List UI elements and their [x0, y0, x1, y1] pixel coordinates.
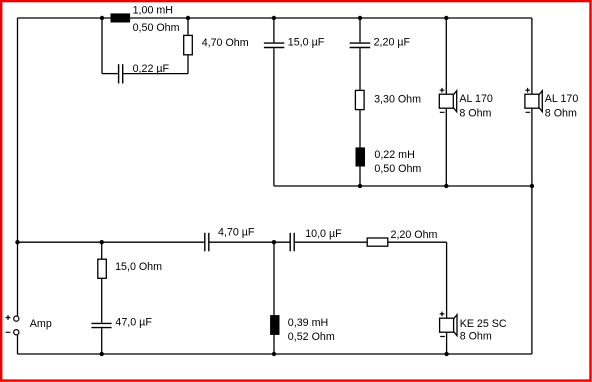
svg-text:0,50 Ohm: 0,50 Ohm	[374, 163, 421, 175]
svg-text:0,52 Ohm: 0,52 Ohm	[288, 331, 335, 343]
inductor L1 1,00 mH	[111, 13, 131, 22]
wire L1 loop bottom left	[102, 73, 118, 75]
wire L1 loop bottom right	[123, 73, 188, 75]
capacitor C1 0,22 uF	[119, 64, 123, 83]
svg-text:0,22 mH: 0,22 mH	[374, 149, 414, 161]
svg-text:2,20 µF: 2,20 µF	[374, 37, 411, 49]
wire C6 bottom lead	[101, 328, 103, 354]
wire top rail	[18, 17, 532, 19]
svg-text:1,00 mH: 1,00 mH	[133, 4, 173, 16]
wire SP3 drop	[446, 242, 448, 318]
node C	[272, 16, 276, 20]
wire lower rail seg3	[295, 241, 367, 243]
inductor L3 0,39 mH	[270, 315, 279, 335]
wire right vertical lower	[531, 108, 533, 354]
svg-text:8 Ohm: 8 Ohm	[460, 331, 492, 343]
wire R2-L2 link	[359, 110, 361, 148]
wire mid bus	[274, 185, 532, 187]
wire L3 column top	[273, 242, 275, 315]
svg-text:0,39 mH: 0,39 mH	[288, 317, 328, 329]
wire R4-C6 link	[101, 278, 103, 322]
speaker U3 KE 25 SC	[440, 312, 457, 337]
wire C3-R2 link	[359, 48, 361, 90]
resistor R3 2,20 Ohm	[367, 238, 388, 246]
svg-text:2,20 Ohm: 2,20 Ohm	[391, 229, 438, 241]
svg-text:AL 170: AL 170	[545, 93, 579, 105]
wire L1 loop left	[101, 18, 103, 74]
svg-text:KE 25 SC: KE 25 SC	[460, 318, 507, 330]
wire R1 top lead	[187, 18, 189, 35]
capacitor C2 15,0 uF	[264, 43, 284, 47]
svg-text:10,0 µF: 10,0 µF	[305, 228, 342, 240]
svg-text:3,30 Ohm: 3,30 Ohm	[374, 93, 421, 105]
node E	[444, 16, 448, 20]
node J	[100, 240, 104, 244]
resistor R2 3,30 Ohm	[355, 90, 364, 109]
wire left rail upper	[17, 18, 19, 316]
svg-text:Amp: Amp	[30, 318, 52, 330]
node B	[186, 16, 190, 20]
node F	[358, 184, 362, 188]
wire lower rail seg4	[388, 241, 447, 243]
wire C2 column bottom	[273, 48, 275, 186]
svg-text:AL 170: AL 170	[459, 93, 493, 105]
speaker U2 AL 170	[525, 88, 542, 112]
wire SP1 column top	[445, 18, 447, 94]
svg-text:15,0 Ohm: 15,0 Ohm	[115, 261, 162, 273]
resistor R4 15,0 Ohm	[98, 259, 107, 278]
node G	[444, 184, 448, 188]
svg-text:0,50 Ohm: 0,50 Ohm	[133, 22, 180, 34]
capacitor C6 47,0 uF	[91, 323, 111, 327]
amp terminal +	[14, 316, 19, 321]
wire C2 column top	[273, 18, 275, 42]
wire left rail lower	[17, 335, 19, 354]
node D	[358, 16, 362, 20]
node L	[100, 352, 104, 356]
node I	[15, 240, 19, 244]
wire SP3 bottom lead	[446, 332, 448, 354]
svg-text:47,0 µF: 47,0 µF	[115, 316, 152, 328]
capacitor C3 2,20 uF	[350, 43, 371, 47]
amp polarity marks	[6, 315, 11, 332]
wire bottom rail	[18, 353, 532, 355]
wire L3 bottom lead	[273, 335, 275, 354]
speaker U1 AL 170	[439, 88, 456, 112]
node M	[272, 352, 276, 356]
svg-text:0,22 µF: 0,22 µF	[133, 63, 170, 75]
capacitor C4 4,70 uF	[205, 233, 209, 252]
svg-text:4,70 µF: 4,70 µF	[218, 227, 255, 239]
wire L1 loop right	[187, 55, 189, 74]
node K	[272, 240, 276, 244]
svg-text:4,70 Ohm: 4,70 Ohm	[202, 37, 249, 49]
node H	[530, 184, 534, 188]
wire R4 column top	[101, 242, 103, 259]
resistor R1 4,70 Ohm	[184, 35, 193, 54]
wire L2 bottom lead	[359, 167, 361, 187]
wire SP1 column bottom	[445, 108, 447, 186]
capacitor C5 10,0 uF	[290, 233, 294, 252]
wire right vertical upper	[531, 18, 533, 94]
svg-text:8 Ohm: 8 Ohm	[545, 107, 577, 119]
svg-text:8 Ohm: 8 Ohm	[459, 107, 491, 119]
amp terminal -	[14, 330, 19, 335]
inductor L2 0,22 mH	[356, 147, 366, 166]
wire C3 column top	[359, 18, 361, 42]
node A	[100, 16, 104, 20]
node N	[444, 352, 448, 356]
svg-text:15,0 µF: 15,0 µF	[288, 37, 325, 49]
wire lower rail seg1	[18, 241, 205, 243]
wire lower rail seg2	[210, 241, 290, 243]
